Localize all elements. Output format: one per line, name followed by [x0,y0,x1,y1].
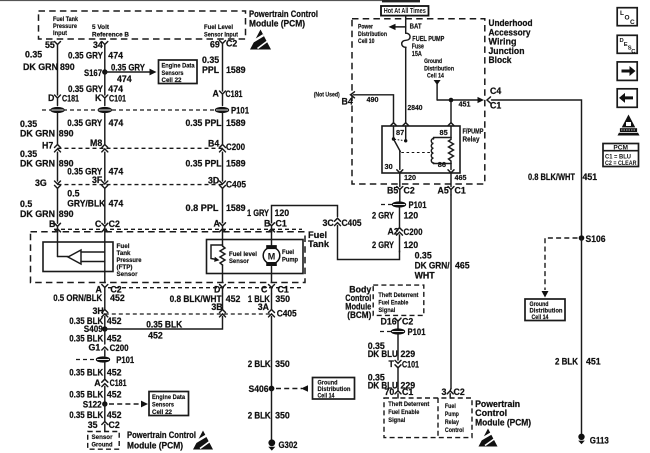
svg-text:B5: B5 [387,186,398,196]
svg-text:DK GRN: DK GRN [20,209,55,219]
svg-text:C1: C1 [490,101,501,111]
svg-text:3: 3 [442,387,447,397]
svg-text:55: 55 [45,40,55,50]
svg-text:890: 890 [60,62,75,72]
connector C200 pin A2 [388,227,423,238]
pin 34 (PCM) [93,40,108,50]
ESD warning icon (bottom right PCM) [478,429,498,447]
grommet P101 (sensor ground) [76,355,134,365]
wire 0.35 BLK 452 segment C181 to S122 [69,387,121,405]
wire 0.35 DK BLU 229 segment C101 to PCM-70 [368,368,416,391]
svg-text:3H: 3H [93,306,104,316]
reference box Ground Distribution Cell 14 (right) [525,299,565,321]
wire 0.35 GRY 474 segment S167 to C101 [68,72,123,95]
icon warning triangle [618,115,640,136]
svg-text:Fuel Enable: Fuel Enable [388,409,419,416]
connector C405 pin 3A [258,302,297,319]
svg-text:474: 474 [117,74,132,84]
svg-text:Fuel Level: Fuel Level [204,24,233,31]
wire 451 to C4 [437,86,501,123]
svg-text:2 BLK: 2 BLK [248,359,272,369]
connector C200 dashed row [58,147,223,149]
svg-text:350: 350 [275,359,290,369]
wire 2 BLK 350 segment 3A to S406 [248,317,290,389]
svg-text:452: 452 [107,368,122,378]
connector C2/C1 dashed row below fuel tank [108,287,303,289]
svg-text:C200: C200 [404,227,423,237]
svg-text:D: D [214,285,220,295]
connector C1 pin B (fuel pump feed) [264,219,287,232]
svg-text:890: 890 [59,209,74,219]
svg-text:C405: C405 [342,218,362,228]
svg-text:M: M [268,251,276,261]
junction block pin B5 C2 [387,186,415,202]
svg-text:0.5: 0.5 [20,199,32,209]
grommet P101 (theft deterrent) [380,327,426,337]
pin 69 C2 (PCM) [210,39,237,50]
connector C2 pin C [95,219,120,232]
svg-text:452: 452 [107,316,122,326]
svg-text:0.35 PPL: 0.35 PPL [186,159,223,169]
svg-text:Pump: Pump [282,257,298,264]
wire 0.35 GRY 474 segment C101 to C200 [67,113,123,145]
pin 3 C2 (PCM fuel pump relay control) [442,387,465,398]
wire 0.8 BLK/WHT 451 from C4 [492,100,598,235]
svg-text:D: D [48,93,54,103]
svg-text:0.35: 0.35 [25,50,42,60]
pin 55 (PCM) [45,40,61,50]
wire 0.35 DK GRN 890 segment PCM-55 to C181 [23,45,75,96]
wire 2840 fuse to relay [406,47,423,122]
svg-text:Tank: Tank [117,250,131,257]
svg-text:Cell 22: Cell 22 [162,77,182,84]
svg-text:P101: P101 [231,105,249,115]
svg-text:S122: S122 [83,400,102,410]
svg-text:S409: S409 [84,324,103,334]
module BCM dashed box [345,285,424,321]
ESD warning icon (bottom left PCM) [192,431,213,450]
svg-text:Cell 14: Cell 14 [532,314,549,321]
svg-text:B4: B4 [208,139,219,149]
svg-text:O: O [625,15,630,22]
wire 1 GRY 120 pump feed (B C1 up and over) [247,206,338,223]
relay pin 86 out [448,170,467,187]
wire 0.35 BLK 452 segment S409 to C200 [69,329,121,344]
svg-text:474: 474 [108,51,123,61]
svg-text:Input: Input [53,30,68,37]
svg-text:5 Volt: 5 Volt [92,24,110,31]
svg-text:120: 120 [275,208,290,218]
svg-text:3A: 3A [258,302,270,312]
svg-text:A5: A5 [438,186,449,196]
svg-text:S406: S406 [249,384,269,394]
ESD warning icon (top PCM) [249,30,271,50]
svg-text:Cell 10: Cell 10 [358,38,375,45]
svg-text:2 GRY: 2 GRY [372,211,394,221]
svg-text:474: 474 [109,198,124,208]
svg-text:0.35 BLK: 0.35 BLK [69,368,104,378]
svg-text:0.5 ORN/BLK: 0.5 ORN/BLK [53,293,103,303]
svg-text:35: 35 [88,420,98,430]
svg-text:3C: 3C [323,218,335,228]
svg-text:C: C [630,19,635,26]
svg-text:C2: C2 [404,186,415,196]
svg-text:0.8 BLK/WHT: 0.8 BLK/WHT [528,172,576,182]
svg-text:Powertrain Control: Powertrain Control [249,9,318,19]
svg-text:Relay: Relay [445,419,459,426]
svg-text:Relay: Relay [463,135,481,144]
svg-text:452: 452 [107,390,122,400]
svg-text:C101: C101 [402,360,419,370]
svg-text:0.35: 0.35 [20,119,37,129]
wire 0.35 PPL 1589 segment P101 to C200 [186,113,246,145]
svg-text:WHT: WHT [415,271,436,281]
module PCM (bottom left) sensor ground box [88,430,196,451]
svg-text:Engine Data: Engine Data [162,63,195,70]
svg-text:DK GRN: DK GRN [20,129,55,139]
svg-text:H7: H7 [42,141,53,151]
fuel pump motor M [263,232,298,283]
svg-text:C2: C2 [402,317,413,327]
svg-text:465: 465 [455,173,467,182]
svg-text:S167: S167 [84,68,102,78]
svg-text:1589: 1589 [226,118,246,128]
connector C101 pin T [389,359,420,370]
svg-text:C405: C405 [277,308,297,318]
connector C405 lower dashed row [105,313,272,315]
svg-text:0.35 PPL: 0.35 PPL [186,118,223,128]
svg-text:P101: P101 [409,200,427,210]
svg-text:Control: Control [445,427,464,434]
svg-text:Module (PCM): Module (PCM) [127,441,183,451]
svg-text:120: 120 [404,211,419,221]
svg-text:Pressure: Pressure [117,257,142,264]
wire 0.35 GRY 474 segment PCM-34 to S167 [68,45,123,73]
svg-text:PCM: PCM [613,144,628,151]
svg-text:M8: M8 [90,138,102,148]
svg-text:85: 85 [440,128,448,137]
svg-text:G302: G302 [279,440,298,450]
power label Hot At All Times [381,6,429,16]
legend box PCM connectors [603,144,639,167]
svg-text:Power: Power [358,24,373,31]
reference Ground Distribution Cell 14 (top) [424,58,454,100]
junction block pin A5 C1 [438,186,466,196]
ground G302 [268,439,297,450]
relay pin 85 [440,123,455,137]
fuse FUEL PUMP 15A [402,33,445,58]
svg-text:C2 = CLEAR: C2 = CLEAR [605,160,637,167]
relay pin 87 [391,123,405,137]
wire 0.35 DK BLU 229 segment P101 to C101 [368,335,416,361]
splice S106 [579,234,606,244]
svg-text:452: 452 [107,410,122,420]
wire 2 GRY 120 segment P101 to C200 [372,208,418,229]
svg-text:Fuel Tank: Fuel Tank [53,16,78,23]
svg-text:70: 70 [385,387,395,397]
reference box Engine Data Sensors Cell 22 (top) [159,60,198,84]
svg-text:0.35: 0.35 [20,149,37,159]
fuel level sensor (variable resistor) [211,232,257,283]
svg-text:2 BLK: 2 BLK [555,357,579,367]
svg-text:C: C [95,219,102,229]
svg-text:C181: C181 [226,89,243,99]
connector C405 pin 3F [92,175,108,189]
svg-text:Ground: Ground [92,442,113,449]
wire 0.5 ORN/BLK 452 segment to C405 [53,293,125,310]
connector C181 pin A (right) [213,89,243,106]
svg-text:C200: C200 [226,142,245,152]
svg-text:Cell 14: Cell 14 [318,393,335,400]
connector C405 dashed row [58,184,223,186]
pin 35 C2 (PCM sensor ground) [88,420,120,432]
connector C200 pin G1 [89,343,129,357]
svg-text:474: 474 [108,84,123,94]
svg-text:PPL: PPL [202,65,220,75]
svg-text:Pressure: Pressure [53,23,77,30]
connector C2/C1 dashed row above fuel tank [54,228,302,230]
connector C405 pin 3B [211,302,225,317]
svg-text:890: 890 [59,129,74,139]
svg-text:87: 87 [396,128,404,137]
svg-text:0.35: 0.35 [202,55,219,65]
wire 0.35 BLK 452 segment P101 to C181 [69,363,121,380]
svg-text:Distribution: Distribution [424,65,454,72]
grommet P101 on DK GRN wire [50,107,64,113]
wire 1 BLK 350 segment to C405 [248,294,290,310]
connector C200 pin M8 [90,138,108,152]
svg-text:350: 350 [275,294,290,304]
svg-text:0.35: 0.35 [415,251,432,261]
svg-text:86: 86 [438,160,446,169]
svg-text:490: 490 [367,95,379,104]
splice S406 [249,384,275,394]
svg-text:120: 120 [404,240,419,250]
wire 0.35 BLK 452 segment 3H to S409 [69,316,121,329]
svg-text:Cell 22: Cell 22 [152,409,172,416]
svg-text:0.35 BLK: 0.35 BLK [69,390,104,400]
svg-text:T: T [389,359,395,369]
svg-text:1589: 1589 [226,203,246,213]
dashed reference branch S106 to Ground Distribution [542,238,578,298]
connector C405 pin 3H [93,306,108,317]
wire 0.35 BLK 452 segment S122 to PCM-35 [69,404,121,422]
svg-text:Cell 14: Cell 14 [427,73,444,80]
connector C101 pin K [95,93,126,106]
svg-text:Theft Deterrent: Theft Deterrent [378,292,419,299]
svg-text:Sensors: Sensors [162,70,184,77]
svg-text:Tank: Tank [308,239,330,249]
svg-text:BAT: BAT [410,21,422,30]
svg-text:451: 451 [583,172,598,182]
svg-text:0.35 GRY: 0.35 GRY [67,118,102,128]
FTP sensor amplifier symbol [58,232,105,283]
ground G113 [578,434,609,446]
svg-text:Reference B: Reference B [92,32,129,39]
svg-text:C181: C181 [110,378,127,388]
wire 0.5 DK GRN 890 segment C405 to FTP sensor [20,188,74,223]
connector C405 pin 3C [323,218,362,228]
svg-text:Module (PCM): Module (PCM) [249,19,305,29]
wire 490 (Not Used B4) [314,92,394,123]
wire 0.5 GRY/BLK 474 segment C405 to FTP sensor [67,188,123,223]
relay pin 30 out [397,170,416,187]
svg-text:Distribution: Distribution [358,31,387,38]
svg-text:C4: C4 [490,86,501,96]
module Underhood Accessory Wiring Junction Block dashed box [352,18,533,184]
wire BAT feed from Hot At All Times [406,16,422,34]
svg-text:P101: P101 [408,327,426,337]
svg-text:465: 465 [455,261,470,271]
reference box Engine Data Sensors Cell 22 (bottom) [149,392,189,417]
svg-text:A: A [94,378,101,388]
wire 0.35 BLK 452 branch 3B to S409 [105,317,223,341]
svg-text:B4: B4 [342,97,353,107]
connector C405 pin 3D [208,176,246,190]
reference box Ground Distribution Cell 14 (bottom) [313,378,355,400]
wire 0.8 PPL 1589 segment C405 to fuel level sensor [186,188,246,223]
svg-text:474: 474 [109,167,124,177]
svg-text:Fuel Enable: Fuel Enable [378,300,408,307]
svg-text:Block: Block [489,55,513,65]
grommet P101 on GRY wire [98,107,112,113]
svg-text:0.8 PPL: 0.8 PPL [186,203,220,213]
splice S167 [84,68,108,78]
svg-text:350: 350 [275,411,290,421]
svg-text:229: 229 [401,349,416,359]
relay coil [431,126,453,170]
icon LOC [617,8,637,26]
svg-text:0.35 GRY: 0.35 GRY [111,63,145,73]
svg-text:C200: C200 [110,343,129,353]
svg-text:Sensor: Sensor [92,434,114,441]
svg-text:C101: C101 [109,94,126,104]
wire 0.35 DK GRN 890 segment C200 to C405 [20,149,74,181]
svg-text:Fuel: Fuel [282,249,294,256]
svg-text:Sensors: Sensors [152,402,174,409]
svg-text:K: K [95,93,102,103]
svg-text:C1: C1 [278,285,289,295]
icon DESC [617,35,637,55]
svg-text:3G: 3G [35,178,47,188]
icon arrow left [617,89,637,108]
fuel tank dashed enclosure [31,230,330,283]
svg-text:1 GRY: 1 GRY [247,208,269,218]
svg-text:DK BLU: DK BLU [368,349,398,359]
wire 0.35 PPL 1589 segment C200 to C405 [186,152,246,181]
svg-text:0.35 BLK: 0.35 BLK [146,319,183,329]
relay switch contacts [385,126,434,171]
svg-text:C1: C1 [402,387,413,397]
svg-text:1589: 1589 [226,65,246,75]
svg-text:69: 69 [210,40,220,50]
svg-text:2840: 2840 [408,103,423,112]
wire 2 GRY 120 segment 3C to C200 riser [338,226,400,260]
pin D16 C2 (BCM) [381,317,414,329]
svg-text:DK GRN/: DK GRN/ [415,261,451,271]
svg-text:Hot At All Times: Hot At All Times [384,8,426,15]
dashed reference branch S122 to Engine Data Sensors [109,401,148,408]
svg-text:30: 30 [385,162,393,171]
wire 0.35 DK GRN/WHT 465 relay control [415,195,470,389]
module PCM (bottom right) dashed box [384,398,531,438]
svg-text:DK GRN: DK GRN [23,62,58,72]
FTP sensor box [43,242,142,278]
dashed reference branch S406 to Ground Distribution [276,385,308,392]
svg-text:C: C [261,285,268,295]
svg-text:15A: 15A [412,49,422,58]
svg-text:P101: P101 [116,355,134,365]
svg-text:Powertrain Control: Powertrain Control [127,430,196,440]
wire 0.35 DK GRN 890 segment C181 to C200 [20,113,74,145]
connector C2 pin B [49,219,61,232]
splice S122 [83,400,108,410]
wire 0.35 PPL 1589 segment PCM-69 to C181 [202,44,246,92]
svg-text:452: 452 [107,334,122,344]
svg-text:Fuel: Fuel [117,243,130,250]
svg-text:Pump: Pump [445,411,459,418]
svg-text:Fuel level: Fuel level [229,251,257,258]
svg-text:(Not Used): (Not Used) [314,92,340,99]
svg-text:Sensor: Sensor [117,271,138,278]
relay F/PUMP box [382,126,484,173]
svg-text:DK GRN: DK GRN [20,159,55,169]
connector C181 pin D [48,93,79,106]
svg-text:Ground: Ground [424,58,442,65]
svg-text:C2: C2 [109,219,120,229]
pin 70 C1 (PCM theft deterrent input) [385,387,414,398]
svg-text:(BCM): (BCM) [347,310,371,320]
connector C2 pin A (fuel level) [214,219,226,232]
svg-text:G1: G1 [89,343,101,353]
svg-text:Control: Control [475,408,507,418]
wire 0.35 GRY 474 segment C200 to C405 [67,152,123,181]
icon arrow right [617,62,637,81]
wire 0.8 BLK/WHT 452 segment to C405 [170,294,241,310]
svg-text:452: 452 [110,293,125,303]
grommet P101 on PPL wire [215,105,249,115]
svg-text:2 BLK: 2 BLK [248,411,272,421]
svg-text:451: 451 [459,100,471,109]
connector C1 pin D (fuel level ground) [214,285,226,295]
svg-text:C181: C181 [62,94,79,104]
wire 0.35 GRY 474 branch S167 to Engine Data Sensors [105,63,157,85]
svg-text:Fuel: Fuel [445,403,456,410]
grommet P101 dashed row [42,109,216,111]
svg-text:0.5: 0.5 [67,189,79,199]
svg-text:452: 452 [226,294,241,304]
svg-text:Sensor: Sensor [229,258,249,265]
svg-text:451: 451 [586,357,601,367]
svg-text:2 GRY: 2 GRY [372,240,394,250]
svg-text:1589: 1589 [226,159,246,169]
connector C2 pin A (FTP ground out) [96,285,122,295]
svg-text:Module (PCM): Module (PCM) [475,418,531,428]
svg-text:0.35 BLK: 0.35 BLK [69,410,104,420]
wire 2 GRY 120 segment C200 to 3C riser [372,235,418,252]
svg-text:C2: C2 [109,420,120,430]
svg-text:(FTP): (FTP) [117,264,133,271]
grommet P101 (pump feed) [381,200,427,210]
wire 2 BLK 451 segment S106 to G113 [555,238,601,434]
connector C405 pin 3G [35,178,61,188]
svg-text:120: 120 [404,173,416,182]
relay pin 86 input (2840) [403,123,409,126]
svg-text:474: 474 [109,118,124,128]
connector C200 pin B4 [208,139,245,153]
svg-text:3D: 3D [208,176,219,186]
splice S409 [84,324,108,334]
